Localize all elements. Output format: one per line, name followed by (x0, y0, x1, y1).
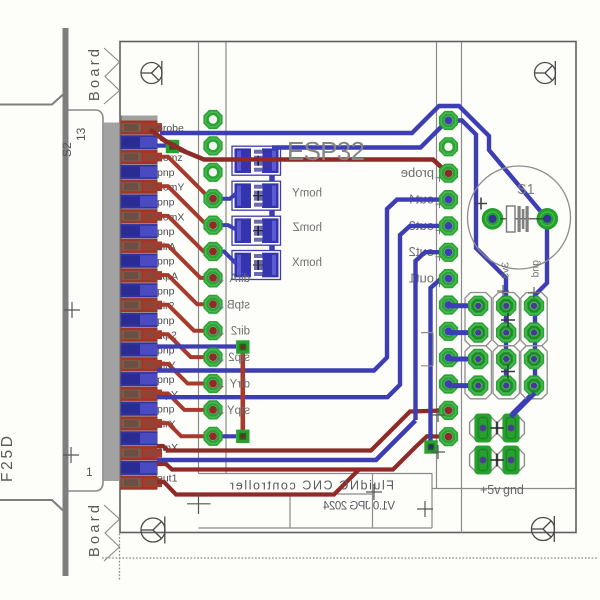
svg-text:13: 13 (74, 127, 88, 141)
wire 3v3 net blue: diodes to header and grid col3 (272, 121, 506, 386)
left header pin pads column (203, 110, 222, 129)
grid crosses (501, 313, 515, 379)
wire out2 net blue (416, 252, 449, 420)
red traces: connector pins to left header pads (155, 157, 213, 437)
connector pin pads (121, 121, 158, 135)
red trace probe net: pin1 via green square to right header (150, 130, 449, 174)
S1 pads (482, 208, 504, 230)
svg-text:gnd: gnd (503, 483, 524, 497)
pin name labels (157, 123, 184, 485)
via green square V2 (236, 340, 249, 353)
smd package box 2 (232, 181, 281, 210)
S1 symbol (500, 218, 545, 220)
via green square V1 (166, 140, 179, 153)
reference mark circles (141, 61, 162, 85)
connector body (104, 123, 121, 482)
svg-text:pnp: pnp (157, 374, 175, 386)
grid pads (468, 296, 488, 316)
silkscreen lines (199, 42, 577, 533)
svg-text:dirY: dirY (229, 379, 250, 391)
wire out3 net blue (157, 226, 449, 397)
wire out1 net blue vertical (431, 279, 449, 446)
dimension lines (102, 520, 598, 580)
right header pin tiny crosses (436, 174, 444, 287)
wire stpX net red bottom run (157, 410, 449, 450)
svg-text:out1: out1 (409, 271, 434, 286)
svg-text:dir2: dir2 (231, 326, 250, 338)
via green square V4 (424, 440, 437, 453)
svg-text:V1.0 JPG 2024: V1.0 JPG 2024 (322, 501, 395, 513)
svg-text:F25D: F25D (0, 436, 16, 482)
svg-text:dirA: dirA (229, 273, 250, 285)
board outline (120, 42, 576, 533)
svg-text:homX: homX (292, 257, 322, 269)
wire pwm net blue bottom run (157, 421, 416, 461)
pin-header grid housings (465, 293, 491, 346)
right header pin labels (mirrored) (401, 165, 434, 285)
col1 small bracket (421, 333, 433, 366)
wire out1 net red bottom run (157, 470, 359, 495)
wire dirX net red bottom run (157, 436, 449, 469)
svg-text:Board: Board (87, 49, 103, 101)
svg-text:1: 1 (86, 465, 93, 479)
blue stubs from left pads i3-i5 to diode boxes (213, 194, 236, 264)
svg-text:3v3: 3v3 (500, 262, 512, 279)
diode/SMD packages column (269, 148, 275, 263)
svg-text:pnp: pnp (157, 315, 175, 327)
long blue trace pwm net y=460 (157, 421, 416, 461)
smd package box 3 (232, 216, 281, 245)
connector F25D outline (63, 28, 69, 576)
svg-text:pnp: pnp (157, 256, 175, 268)
blue nested traces out4..out1 (157, 200, 449, 446)
svg-text:stpY: stpY (227, 405, 250, 417)
diode labels homY/homZ/homX (mirrored) (292, 188, 322, 269)
wire probe net red: DB25 pin1 to ESP32 probe pad (150, 130, 449, 174)
svg-text:pnp: pnp (157, 197, 175, 209)
long traces bottom: stpX/pwm/out nets (157, 410, 449, 494)
wire out4 net blue (157, 200, 449, 371)
svg-text:ESP32: ESP32 (287, 136, 365, 166)
blue stubs and links from connector (157, 146, 236, 437)
right header pin pads column (439, 111, 458, 130)
svg-text:stpB: stpB (227, 299, 250, 311)
svg-text:pnp: pnp (157, 285, 175, 297)
blue trace A: y=133 runs to top right, around to S1 right pad (160, 106, 547, 415)
svg-text:S1: S1 (517, 182, 535, 198)
via green square V3 (236, 430, 249, 443)
svg-text:pnp: pnp (157, 167, 175, 179)
svg-text:stp2: stp2 (228, 352, 250, 364)
component S1 (battery/buzzer) (468, 166, 571, 269)
+5v / gnd power pads 2x2 (470, 415, 497, 442)
grid blue horizontal bars col1-col2 (449, 306, 478, 386)
+5v pad to col4 blue diagonal (511, 393, 535, 417)
S1 plus mark (475, 198, 487, 210)
smd package box 1 (232, 146, 281, 175)
svg-text:+5v: +5v (480, 483, 501, 497)
smd package box 4 (232, 251, 281, 280)
origin crosses (63, 302, 445, 517)
svg-text:Board: Board (87, 505, 103, 557)
svg-text:gnd: gnd (530, 260, 542, 278)
svg-text:pnp: pnp (157, 226, 175, 238)
svg-text:pnp: pnp (157, 404, 175, 416)
svg-text:FluidNC CNC controller: FluidNC CNC controller (230, 479, 394, 493)
power pads crosses (491, 422, 504, 467)
svg-text:probe: probe (401, 165, 434, 180)
svg-text:S2: S2 (60, 142, 74, 157)
svg-text:homZ: homZ (293, 222, 322, 234)
left pad labels (mirrored) right of column (227, 273, 250, 417)
wire red vertical between vias (241, 347, 246, 436)
wire gnd net blue: top run to S1 and power pads (160, 106, 547, 415)
svg-text:homY: homY (292, 188, 322, 200)
